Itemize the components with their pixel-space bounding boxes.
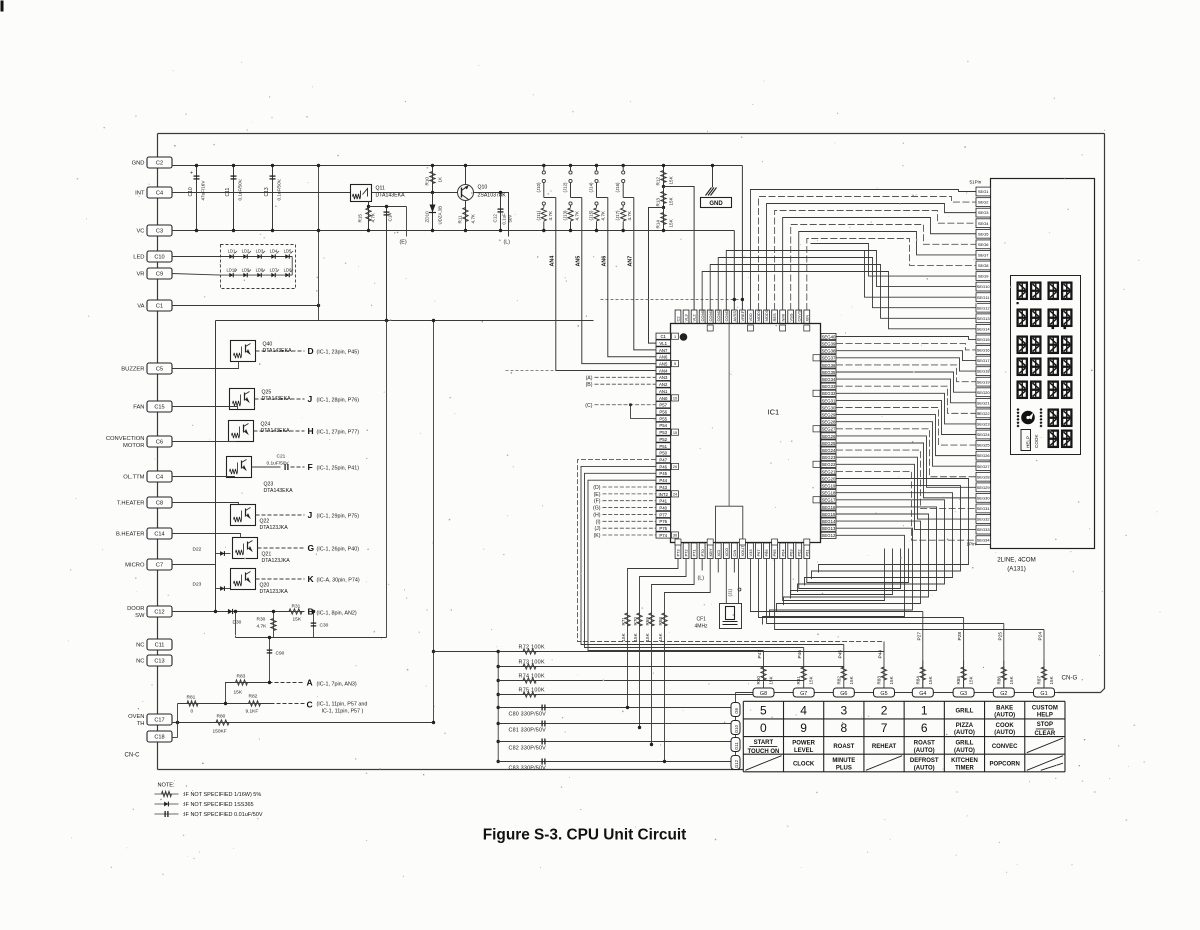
svg-text:C11: C11 (155, 643, 165, 649)
resistor R80 150KF (216, 720, 229, 725)
diode D30 (228, 609, 233, 614)
svg-text:15K: 15K (769, 675, 774, 684)
wire bundle IC right pins to LCD pins rows 15-34 (836, 337, 976, 541)
svg-text:P72: P72 (684, 549, 689, 557)
svg-text:15K: 15K (669, 196, 674, 205)
wire R72 row feed (434, 651, 499, 653)
LCD display module outer box (991, 179, 1095, 549)
connector pin G5 (874, 688, 895, 697)
svg-text:C: C (307, 700, 313, 710)
svg-text:G4: G4 (919, 691, 926, 697)
svg-text:KBY: KBY (708, 548, 713, 556)
svg-text:15: 15 (673, 431, 677, 435)
svg-text:DEFROST: DEFROST (910, 758, 939, 764)
wire G-line connector bus (736, 692, 1058, 694)
svg-text:P40: P40 (659, 505, 667, 510)
svg-text:8: 8 (840, 721, 847, 735)
svg-text:(AUTO): (AUTO) (994, 713, 1015, 719)
svg-text:R68: R68 (658, 617, 663, 626)
svg-text:G3: G3 (960, 691, 967, 697)
svg-text:150KF: 150KF (213, 729, 227, 735)
svg-text:R85: R85 (956, 676, 961, 685)
svg-text:51Pin: 51Pin (970, 180, 982, 185)
svg-text:(B): (B) (586, 382, 593, 388)
resistor R72 row (497, 650, 500, 653)
svg-text:(J12): (J12) (563, 182, 568, 193)
svg-text:R81: R81 (796, 676, 801, 685)
svg-text:P77: P77 (659, 512, 667, 517)
svg-text:R13: R13 (656, 198, 661, 207)
svg-text:B: B (308, 607, 314, 617)
svg-text:D22: D22 (193, 547, 202, 553)
wire Q11 collector to Q10 base (372, 192, 458, 194)
svg-text:P47: P47 (757, 650, 763, 659)
svg-text:3: 3 (840, 703, 847, 717)
keypad cell r4c1 blank (745, 756, 781, 771)
svg-text:PIZZA: PIZZA (956, 723, 974, 729)
svg-text:COM3: COM3 (724, 309, 729, 321)
svg-text:SEG28: SEG28 (822, 420, 836, 425)
svg-text:C82 330P/50V: C82 330P/50V (509, 746, 547, 752)
svg-text:ROAST: ROAST (833, 744, 854, 750)
wire Q25 output to letter J (255, 398, 305, 400)
svg-text:VL3: VL3 (684, 314, 689, 322)
wire INT line y=192 (172, 192, 351, 194)
wire vertical x=318 (318, 166, 320, 321)
svg-text:C5: C5 (156, 367, 163, 373)
svg-text:K: K (308, 574, 315, 584)
jumper (J16)/(J17) column with net AN7 (622, 164, 625, 167)
svg-text:SEG35: SEG35 (822, 370, 836, 375)
svg-text:P41: P41 (659, 499, 667, 504)
wire net AN4 into IC pin (556, 198, 656, 371)
svg-text:R30: R30 (257, 617, 266, 623)
svg-text:4.7K: 4.7K (575, 210, 580, 220)
svg-text:A: A (307, 678, 313, 688)
svg-text:R72 100K: R72 100K (519, 645, 545, 651)
svg-text:HELP: HELP (1037, 713, 1053, 719)
svg-text:AN6: AN6 (659, 355, 668, 360)
svg-text:C8: C8 (156, 501, 163, 507)
svg-text:SEG14: SEG14 (977, 326, 991, 331)
svg-text:15K: 15K (621, 632, 626, 641)
svg-text:G1: G1 (1040, 691, 1047, 697)
svg-text:SEG11: SEG11 (977, 295, 990, 300)
svg-text:C12: C12 (154, 610, 164, 616)
svg-text:Q20: Q20 (260, 583, 270, 589)
svg-text:R86: R86 (996, 676, 1001, 685)
svg-text:G11: G11 (734, 742, 739, 750)
svg-text:KITCHEN: KITCHEN (951, 758, 978, 764)
svg-text:INT: INT (135, 191, 145, 197)
svg-text:15K: 15K (1049, 675, 1054, 684)
svg-text:XCI: XCI (716, 550, 721, 557)
svg-text:SEG40: SEG40 (822, 334, 836, 339)
svg-text:Figure S-3. CPU Unit Circuit: Figure S-3. CPU Unit Circuit (483, 827, 687, 844)
svg-text:(J15): (J15) (589, 210, 594, 221)
wire bundle IC top pins to LCD pins rows 1-8 (750, 190, 976, 311)
LCD digit r4c3 (1048, 358, 1059, 377)
svg-text:LED: LED (133, 255, 144, 261)
svg-text:P45: P45 (659, 471, 667, 476)
connector pin G9 (731, 703, 740, 717)
svg-text:DTA143EKA: DTA143EKA (264, 488, 294, 494)
svg-text:VA: VA (137, 304, 144, 310)
svg-text:P27: P27 (916, 632, 922, 641)
transistor Q23 DTA143EKA (227, 457, 252, 478)
svg-text:AN6: AN6 (601, 256, 607, 267)
svg-text:SEG13: SEG13 (822, 526, 836, 531)
svg-text:10: 10 (673, 396, 677, 400)
resistor R71 15K (625, 613, 630, 626)
svg-text:AN4: AN4 (659, 368, 668, 373)
wire P27 column (922, 612, 924, 689)
wire VC rail drop to IC pin (733, 231, 735, 311)
svg-text:(IC-1, 25pin, P41): (IC-1, 25pin, P41) (317, 466, 360, 472)
svg-text:SEG4: SEG4 (978, 221, 989, 226)
capacitor C81 row (497, 722, 500, 725)
svg-text:COM0: COM0 (700, 309, 705, 321)
svg-text:(J16): (J16) (615, 182, 620, 193)
svg-text:4.7K: 4.7K (371, 212, 376, 222)
svg-text:CONVECTION: CONVECTION (106, 436, 145, 442)
svg-text:DTA123JKA: DTA123JKA (262, 558, 291, 564)
svg-text:R81: R81 (187, 695, 196, 701)
wire Q10 emitter to GND rail (465, 166, 467, 185)
wire OL.TTM to Q23 (172, 477, 235, 478)
svg-text:NOTE:: NOTE: (158, 783, 176, 789)
svg-text:P57: P57 (659, 403, 667, 408)
wire Q24 output to letter H (254, 430, 305, 432)
svg-text:C83 330P/50V: C83 330P/50V (509, 766, 547, 772)
LCD pin boxes column (976, 187, 991, 544)
svg-text:R14: R14 (656, 220, 661, 229)
resistor R73 row (497, 665, 500, 668)
svg-text:C11: C11 (225, 187, 231, 196)
svg-text:SEG29: SEG29 (822, 413, 836, 418)
svg-text:VSS: VSS (788, 313, 793, 321)
connector pin G6 (833, 688, 854, 697)
svg-text:SEG25: SEG25 (977, 443, 991, 448)
wire P47 IC pin to keypad column (578, 460, 885, 642)
svg-text:20: 20 (673, 465, 677, 469)
svg-text:C13: C13 (264, 187, 270, 196)
svg-text:SEG29: SEG29 (977, 485, 991, 490)
jumper (J10)/(J11) column with net AN4 (542, 164, 545, 167)
svg-text:(C): (C) (585, 403, 592, 409)
IC1 internal sub-block (716, 506, 743, 542)
svg-text:(L): (L) (698, 576, 705, 582)
svg-text:4.7K: 4.7K (471, 213, 476, 223)
svg-text:GND: GND (709, 201, 723, 207)
svg-text:P55: P55 (659, 416, 667, 421)
capacitor C90 (269, 638, 271, 683)
svg-text:(IC-1, 7pin, AN3): (IC-1, 7pin, AN3) (317, 682, 357, 688)
note line 3 capacitor (155, 813, 179, 815)
svg-text:SEG18: SEG18 (977, 369, 991, 374)
wire LED connector line (172, 256, 221, 258)
LCD digit r6c3 (1048, 409, 1059, 428)
svg-text:P61: P61 (804, 549, 809, 557)
capacitor C83 row (497, 760, 500, 763)
svg-text:R71: R71 (621, 617, 626, 626)
wire IC bottom pin stubs (717, 559, 719, 573)
svg-text:C6: C6 (156, 440, 163, 446)
svg-text:C9: C9 (156, 272, 163, 278)
svg-text:R80: R80 (756, 676, 761, 685)
svg-text:P75: P75 (659, 526, 667, 531)
capacitor C21 0.1uF/50V (284, 464, 286, 470)
svg-text:IC1: IC1 (768, 408, 780, 417)
svg-text:VDD: VDD (748, 313, 753, 322)
svg-text:1: 1 (921, 703, 928, 717)
wire A line (226, 683, 269, 704)
svg-text:P47: P47 (659, 457, 667, 462)
capacitor C11 0.1uF/50V. (233, 166, 235, 231)
zener ZD10 UDZA.3B (432, 193, 434, 231)
svg-text:P65: P65 (772, 549, 777, 557)
svg-text:2LINE, 4COM: 2LINE, 4COM (997, 557, 1036, 564)
svg-text:SEG34: SEG34 (822, 377, 836, 382)
svg-text:P63: P63 (788, 549, 793, 557)
resistor R14 15K (663, 208, 665, 231)
svg-text:SEG7: SEG7 (978, 252, 989, 257)
keypad cell r3c8 blank (1027, 738, 1063, 753)
LED matrix box LD1-LD10 (221, 245, 296, 289)
wire Q10 collector / net (L) (474, 193, 509, 237)
svg-text:START: START (754, 740, 774, 746)
svg-text:Q11: Q11 (376, 186, 386, 192)
LCD digit r4c1 (1017, 358, 1028, 377)
capacitor C14 (386, 207, 388, 321)
note line 1 resistor (155, 793, 179, 795)
svg-text:CUSTOM: CUSTOM (1032, 705, 1058, 711)
svg-text:R80: R80 (217, 714, 226, 720)
jumper (J14)/(J15) column with net AN6 (595, 164, 598, 167)
svg-text:D30: D30 (233, 620, 242, 626)
transistor Q22 DTA123JKA (231, 505, 256, 526)
svg-text:ZD10: ZD10 (425, 211, 430, 223)
svg-text:SEG20: SEG20 (822, 476, 836, 481)
wire LED rows joint (291, 257, 293, 276)
transistor Q21 DTA123JKA (233, 538, 258, 559)
svg-text:SEG15: SEG15 (977, 337, 991, 342)
wire R12 to IC pin VL2 (664, 187, 695, 311)
svg-text:R83: R83 (877, 676, 882, 685)
svg-text:CF1: CF1 (697, 617, 707, 623)
svg-text:P53: P53 (659, 430, 667, 435)
keypad table grid (743, 701, 1065, 771)
svg-text:J: J (308, 510, 313, 520)
svg-text:R15: R15 (358, 214, 363, 223)
wire P44 IC pin to keypad column (588, 480, 764, 650)
svg-text:CN-G: CN-G (1062, 675, 1078, 682)
svg-text:47uF/16V: 47uF/16V (201, 180, 206, 201)
svg-text:P54: P54 (659, 423, 667, 428)
svg-text:(J14): (J14) (589, 182, 594, 193)
svg-text:P50: P50 (659, 451, 667, 456)
wire (E) dangle (406, 207, 408, 237)
resistor R83 15K (236, 680, 248, 685)
svg-text:SEG21: SEG21 (977, 400, 991, 405)
svg-text:R82: R82 (249, 694, 258, 700)
svg-text:C15: C15 (154, 405, 164, 411)
LCD digit r5c1 (1017, 381, 1028, 400)
wire dashed y=299 (601, 299, 743, 301)
wire FAN to Q25 (172, 407, 238, 410)
svg-text:D23: D23 (193, 582, 202, 588)
LCD digit r1c1 (1017, 282, 1028, 301)
svg-text:C14: C14 (154, 532, 164, 538)
wire P25 column (1003, 624, 1005, 689)
wire (C) branch to P55 (629, 403, 632, 406)
resistor R30 4.7K (273, 612, 275, 638)
svg-text:C4: C4 (156, 475, 163, 481)
svg-text:0.1uF/50V.: 0.1uF/50V. (238, 178, 243, 200)
resistor R74 row (497, 679, 500, 682)
transistor Q11 DTA143EKA (351, 185, 372, 202)
keypad cell r4c4 blank (866, 756, 902, 771)
svg-text:50V: 50V (508, 215, 513, 223)
keypad cell r4c8 blank (1027, 756, 1063, 771)
connector pin G12 (731, 756, 740, 770)
svg-text:V33: V33 (748, 549, 753, 557)
jumper (J12)/(J13) column with net AN5 (569, 164, 572, 167)
wire left vertical bus (157, 134, 159, 770)
svg-text:C1: C1 (156, 304, 163, 310)
wire B.HEATER to Q21 (172, 534, 241, 538)
svg-text:POWER: POWER (792, 741, 815, 747)
svg-text:G: G (308, 543, 315, 553)
svg-text:COM2: COM2 (716, 309, 721, 321)
svg-text:VC: VC (136, 229, 144, 235)
IC U1 (IC1) body (671, 324, 821, 543)
svg-text:SEG17: SEG17 (977, 358, 991, 363)
svg-text:4.7K: 4.7K (627, 210, 632, 220)
LCD digit r4c4 (1062, 358, 1073, 377)
svg-text:Q10: Q10 (478, 185, 488, 191)
svg-text:SEG36: SEG36 (822, 363, 836, 368)
svg-text:C14: C14 (388, 213, 393, 222)
svg-text:Q40: Q40 (263, 342, 273, 348)
svg-text:COM1: COM1 (708, 309, 713, 321)
resistor R31 15K (289, 609, 302, 614)
svg-text:G9: G9 (734, 708, 739, 714)
resistor R10 1K (432, 166, 434, 193)
svg-text:SEG8: SEG8 (978, 263, 989, 268)
svg-text:GRILL: GRILL (955, 741, 973, 747)
LCD digit r3c3 (1048, 336, 1059, 355)
svg-text:VL2: VL2 (692, 314, 697, 322)
resistor R84 15K (922, 661, 924, 689)
wire LED row1 (221, 256, 293, 258)
wire transistor block top line y=320 (216, 320, 594, 322)
svg-text:G10: G10 (734, 724, 739, 733)
svg-text:LEVEL: LEVEL (794, 748, 814, 754)
resistor R85 15K (963, 661, 965, 689)
LCD digit r1c3 (1048, 282, 1059, 301)
wire net AN5 into IC pin (582, 198, 656, 364)
svg-text:MOD0: MOD0 (764, 309, 769, 321)
svg-text:G7: G7 (800, 691, 807, 697)
svg-text:R84: R84 (915, 676, 920, 685)
svg-text:AN1: AN1 (659, 389, 668, 394)
svg-text:ROAST: ROAST (914, 741, 935, 747)
svg-text:R11: R11 (458, 215, 463, 224)
resistor R86 15K (1003, 661, 1005, 689)
svg-text:4MHz: 4MHz (695, 624, 709, 630)
svg-text:(J10): (J10) (536, 182, 541, 193)
wire LCD pins rows 9-10 feeds (811, 244, 977, 277)
svg-text:D: D (308, 346, 314, 356)
wire bundle IC bottom pins to R68-R71 (628, 559, 679, 708)
svg-text:P70: P70 (700, 549, 705, 557)
scan artifact mark top-left (1, 1, 4, 12)
svg-text:AN4: AN4 (549, 256, 555, 267)
LCD digit r7c3 (1048, 430, 1059, 449)
wire Q23 output to letter F (252, 466, 281, 468)
svg-text:7: 7 (881, 721, 888, 735)
svg-text:F: F (308, 462, 313, 472)
svg-text:R31: R31 (292, 604, 301, 610)
connector pin G3 (953, 688, 974, 697)
svg-text:SEG25: SEG25 (822, 441, 836, 446)
svg-text:P62: P62 (796, 549, 801, 557)
svg-text:VR: VR (136, 272, 144, 278)
wire Q40 output to letter D (256, 350, 305, 352)
svg-text:30: 30 (673, 534, 677, 538)
wire bundle IC bottom pins to keypad P columns (750, 559, 922, 612)
svg-text:SEG3: SEG3 (978, 210, 989, 215)
LCD digit r4c2 (1031, 358, 1042, 377)
svg-text:AN5: AN5 (659, 362, 668, 367)
svg-text:SEG26: SEG26 (822, 434, 836, 439)
svg-text:SEG30: SEG30 (822, 405, 836, 410)
wire C line (178, 703, 271, 705)
svg-text:C10: C10 (154, 255, 164, 261)
svg-text:P73: P73 (676, 549, 681, 557)
svg-text:PLUS: PLUS (836, 765, 852, 771)
svg-text:1K: 1K (438, 176, 443, 183)
svg-text:2SA1037AK: 2SA1037AK (478, 193, 507, 199)
svg-text:(AUTO): (AUTO) (954, 730, 975, 736)
wire MICRO branch vertical (215, 549, 217, 596)
svg-text:P56: P56 (659, 410, 667, 415)
svg-text::IF NOT SPECIFIED 1/16W) 5%: :IF NOT SPECIFIED 1/16W) 5% (183, 792, 262, 798)
LCD digit r2c2 (1031, 309, 1042, 328)
svg-text:C1: C1 (660, 334, 666, 339)
svg-text:C17: C17 (154, 718, 164, 724)
svg-text:C12: C12 (493, 214, 498, 223)
svg-text:(I): (I) (596, 519, 601, 525)
svg-text:P24: P24 (1038, 632, 1044, 641)
svg-text:Q24: Q24 (261, 422, 271, 428)
resistor R68 15K (662, 613, 667, 626)
svg-text:5: 5 (760, 703, 767, 717)
wire bottom ground line (158, 769, 744, 771)
svg-text:(AUTO): (AUTO) (914, 765, 935, 771)
svg-text:CN-C: CN-C (125, 753, 141, 759)
svg-text:6: 6 (921, 721, 928, 735)
LCD digit r5c2 (1031, 381, 1042, 400)
svg-text:P46: P46 (797, 650, 803, 659)
svg-text:SEG32: SEG32 (822, 391, 836, 396)
svg-text:SEG21: SEG21 (822, 469, 836, 474)
connector pin G8 (753, 688, 774, 697)
svg-text:G5: G5 (880, 691, 887, 697)
svg-text:SEG19: SEG19 (977, 379, 991, 384)
ground symbol GND (712, 166, 714, 188)
